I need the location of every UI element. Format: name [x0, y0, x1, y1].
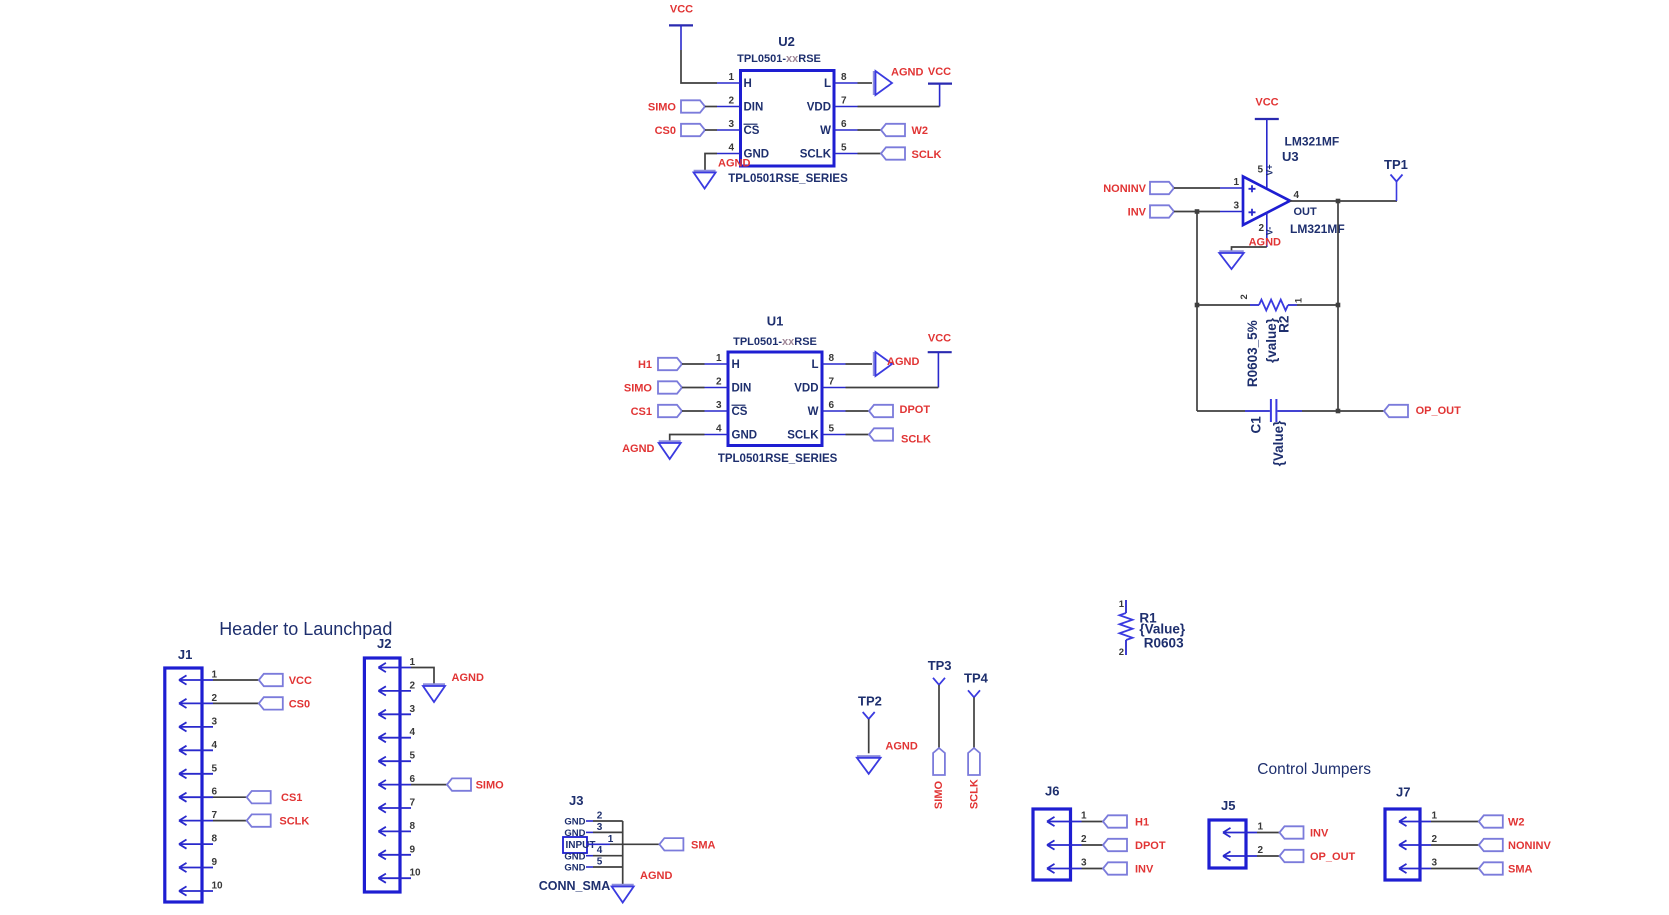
- svg-text:SIMO: SIMO: [624, 383, 653, 395]
- svg-text:1: 1: [608, 834, 614, 845]
- U1 pin 6 W: [822, 410, 846, 412]
- wire U1 pin 5 to SCLK flag: [846, 434, 870, 436]
- net flag SIMO (U1 pin 2): [658, 381, 682, 393]
- svg-text:CS: CS: [732, 406, 748, 418]
- svg-text:TPL0501-xxRSE: TPL0501-xxRSE: [733, 336, 817, 348]
- U2 pin 7 VDD: [834, 106, 858, 108]
- node feedback-R2 right junction: [1336, 303, 1341, 308]
- svg-text:L: L: [824, 78, 831, 90]
- svg-text:5: 5: [212, 763, 218, 774]
- net flag SIMO (below TP3): [933, 748, 945, 775]
- svg-text:TP2: TP2: [858, 694, 882, 709]
- wire feedback row left segment to C1: [1197, 410, 1245, 412]
- U2 pin 1 H: [717, 82, 741, 84]
- U1 pin 8 L: [822, 363, 846, 365]
- svg-text:C1: C1: [1249, 416, 1264, 434]
- svg-text:2: 2: [597, 811, 603, 822]
- svg-text:AGND: AGND: [885, 741, 917, 753]
- J3 pin 1 INPUT: [563, 837, 587, 853]
- J6 pin 2: [1047, 840, 1082, 849]
- svg-text:Header to Launchpad: Header to Launchpad: [219, 619, 392, 639]
- header J2 body: [364, 658, 400, 892]
- svg-text:CS1: CS1: [631, 406, 652, 418]
- svg-text:8: 8: [841, 72, 847, 83]
- svg-text:SCLK: SCLK: [787, 430, 819, 442]
- wire J2 pin 6 to SIMO flag: [411, 784, 447, 786]
- svg-text:6: 6: [841, 119, 847, 130]
- svg-text:8: 8: [212, 834, 218, 845]
- wire CS0 flag to pin 3: [705, 129, 717, 131]
- net flag CS0 (U2 pin 3): [681, 124, 705, 136]
- svg-text:CS: CS: [744, 125, 760, 137]
- net flag SIMO (J2 pin 6): [447, 778, 471, 790]
- wire J7 pin 1 to W2 flag: [1431, 821, 1479, 823]
- net flag SIMO (U2 pin 2): [681, 100, 705, 112]
- svg-text:INV: INV: [1128, 207, 1147, 219]
- svg-text:9: 9: [410, 844, 416, 855]
- svg-text:U1: U1: [767, 314, 784, 329]
- svg-text:CS1: CS1: [281, 792, 302, 804]
- wire J1 pin 2 to CS0 flag: [213, 702, 259, 704]
- svg-text:SMA: SMA: [1508, 864, 1533, 876]
- J1 pin 2: [179, 699, 213, 708]
- wire J3 ground bus: [622, 821, 624, 885]
- svg-text:SCLK: SCLK: [279, 816, 309, 828]
- svg-text:GND: GND: [564, 863, 585, 874]
- net flag SCLK (U2 pin 5): [881, 147, 905, 159]
- ground AGND (below TP2): [857, 755, 881, 757]
- net flag W2 (J7 pin 1): [1479, 815, 1503, 827]
- J2 pin 8: [378, 827, 411, 836]
- svg-text:GND: GND: [732, 430, 758, 442]
- net flag OP_OUT (J5 pin 2): [1280, 850, 1304, 862]
- U2 pin 5 SCLK: [834, 153, 858, 155]
- wire J5 pin 1 to INV flag: [1257, 832, 1280, 834]
- J1 pin 7: [179, 816, 213, 825]
- net flag INV (U3 pin 3): [1150, 205, 1174, 217]
- net flag INV (J5 pin 1): [1280, 826, 1304, 838]
- svg-text:VCC: VCC: [670, 4, 693, 16]
- svg-text:R0603: R0603: [1144, 636, 1184, 651]
- wire TP3 to SIMO flag: [938, 685, 940, 748]
- svg-text:6: 6: [212, 787, 218, 798]
- svg-text:NONINV: NONINV: [1103, 183, 1146, 195]
- wire R2 right to output net: [1297, 304, 1338, 306]
- svg-text:CS0: CS0: [655, 125, 676, 137]
- ground AGND (below J3): [612, 884, 634, 886]
- svg-text:4: 4: [212, 740, 218, 751]
- node feedback-R2 left junction: [1195, 303, 1200, 308]
- digital potentiometer U1 body: [728, 352, 822, 446]
- wire J7 pin 2 to NONINV flag: [1431, 844, 1479, 846]
- svg-text:1: 1: [1258, 822, 1264, 833]
- wire J6 pin 2 to DPOT flag: [1082, 844, 1104, 846]
- svg-text:W2: W2: [1508, 817, 1525, 829]
- J7 pin 1: [1399, 817, 1431, 826]
- svg-text:J5: J5: [1221, 798, 1235, 813]
- U1 pin 1 H: [705, 363, 729, 365]
- svg-text:H: H: [732, 359, 740, 371]
- svg-text:1: 1: [212, 670, 218, 681]
- svg-text:SCLK: SCLK: [969, 779, 981, 809]
- U3 pin 2 V- supply: [1266, 212, 1268, 247]
- svg-text:DIN: DIN: [744, 102, 764, 114]
- J5 pin 1: [1223, 828, 1257, 837]
- net flag W2 (U2 pin 6): [881, 124, 905, 136]
- svg-text:VDD: VDD: [807, 102, 831, 114]
- svg-text:7: 7: [410, 798, 416, 809]
- svg-text:R2: R2: [1276, 316, 1291, 333]
- svg-text:SCLK: SCLK: [912, 149, 942, 161]
- wire J7 pin 3 to SMA flag: [1431, 868, 1479, 870]
- net flag SMA (J7 pin 3): [1479, 862, 1503, 874]
- svg-text:TP1: TP1: [1384, 157, 1408, 172]
- svg-text:1: 1: [728, 72, 734, 83]
- wire J5 pin 2 to OP_OUT flag: [1257, 855, 1280, 857]
- svg-text:6: 6: [410, 774, 416, 785]
- svg-text:1: 1: [1119, 599, 1125, 610]
- U3 pin 5 V+ supply: [1266, 119, 1268, 190]
- net flag NONINV (J7 pin 2): [1479, 839, 1503, 851]
- wire C1 right to output net: [1302, 410, 1338, 412]
- wire J3 pin 4 to ground bus: [593, 855, 623, 857]
- wire U2 pin 5 to SCLK flag: [858, 153, 882, 155]
- svg-text:7: 7: [829, 377, 835, 388]
- U2 pin 2 DIN: [717, 106, 741, 108]
- wire J6 pin 1 to H1 flag: [1082, 821, 1104, 823]
- wire J3 pin 1 to SMA flag: [610, 843, 659, 845]
- svg-text:6: 6: [829, 400, 835, 411]
- svg-text:TPL0501RSE_SERIES: TPL0501RSE_SERIES: [718, 453, 838, 465]
- svg-text:U2: U2: [778, 34, 795, 49]
- header J6 body: [1033, 809, 1071, 880]
- resistor R2: [1250, 304, 1297, 306]
- svg-text:TP3: TP3: [928, 658, 952, 673]
- svg-text:TP4: TP4: [964, 671, 989, 686]
- net flag OP_OUT (op-amp output): [1384, 405, 1408, 417]
- wire feedback left to R2: [1197, 304, 1250, 306]
- svg-text:INV: INV: [1310, 828, 1329, 840]
- svg-text:4: 4: [716, 424, 722, 435]
- U1 pin 3 CS: [705, 410, 729, 412]
- J1 pin 8: [179, 840, 213, 849]
- net flag SCLK (U1 pin 5): [869, 428, 893, 440]
- header J7 body: [1385, 809, 1420, 880]
- wire U2 pin 8 to AGND arrow: [858, 82, 873, 84]
- net flag NONINV (U3 pin 1): [1150, 182, 1174, 194]
- svg-text:10: 10: [212, 881, 224, 892]
- svg-text:R0603_5%: R0603_5%: [1245, 320, 1260, 387]
- svg-text:U3: U3: [1282, 149, 1299, 164]
- svg-text:5: 5: [829, 424, 835, 435]
- svg-text:W: W: [808, 406, 819, 418]
- wire U2 pin 7 to VCC: [858, 106, 940, 108]
- ground AGND (below U2 pin 4): [694, 170, 716, 172]
- svg-text:AGND: AGND: [640, 870, 672, 882]
- wire TP1 to output net: [1396, 182, 1398, 202]
- svg-text:3: 3: [410, 704, 416, 715]
- net flag SMA (J3 pin 1): [659, 838, 683, 850]
- net flag DPOT (J6 pin 2): [1103, 839, 1127, 851]
- digital potentiometer U2 body: [741, 71, 835, 167]
- J2 pin 3: [378, 710, 411, 719]
- svg-text:L: L: [811, 359, 818, 371]
- svg-text:TPL0501RSE_SERIES: TPL0501RSE_SERIES: [728, 173, 848, 185]
- svg-text:SIMO: SIMO: [933, 781, 945, 810]
- svg-text:3: 3: [728, 119, 734, 130]
- node INV junction: [1195, 209, 1200, 214]
- svg-text:SMA: SMA: [691, 839, 716, 851]
- J1 pin 4: [179, 746, 213, 755]
- svg-text:VCC: VCC: [928, 333, 951, 345]
- J1 pin 1: [179, 675, 213, 684]
- J2 pin 7: [378, 803, 411, 812]
- svg-text:OUT: OUT: [1294, 206, 1318, 218]
- J2 pin 2: [378, 686, 411, 695]
- svg-text:AGND: AGND: [887, 356, 919, 368]
- J6 pin 1: [1047, 817, 1082, 826]
- svg-text:2: 2: [728, 96, 734, 107]
- wire U1 pin 7 to VCC: [846, 387, 939, 389]
- wire U1 pin 4 to ground: [670, 435, 705, 442]
- svg-text:W: W: [820, 125, 831, 137]
- svg-text:NONINV: NONINV: [1508, 840, 1551, 852]
- net flag DPOT (U1 pin 6): [869, 405, 893, 417]
- wire U3 pin 2 to ground: [1232, 247, 1267, 252]
- svg-text:AGND: AGND: [1249, 236, 1281, 248]
- wire J6 pin 3 to INV flag: [1082, 868, 1104, 870]
- svg-text:DPOT: DPOT: [900, 404, 931, 416]
- J1 pin 10: [179, 886, 213, 895]
- wire U2 pin 6 to W2 flag: [858, 129, 882, 131]
- svg-text:2: 2: [212, 693, 218, 704]
- svg-text:DPOT: DPOT: [1135, 840, 1166, 852]
- net flag CS0 (J1 pin 2): [259, 697, 283, 709]
- svg-text:V-: V-: [1265, 227, 1275, 236]
- U1 pin 2 DIN: [705, 387, 729, 389]
- header J1 body: [165, 668, 202, 902]
- svg-text:TPL0501-xxRSE: TPL0501-xxRSE: [737, 53, 821, 65]
- svg-text:1: 1: [716, 353, 722, 364]
- U3 pin 1 noninverting input: [1220, 187, 1243, 189]
- svg-text:4: 4: [1294, 190, 1300, 201]
- wire SIMO flag to pin 2: [682, 387, 705, 389]
- wire U1 pin 6 to DPOT flag: [846, 410, 870, 412]
- wire output down to feedback: [1337, 201, 1339, 411]
- wire J1 pin 7 to SCLK flag: [213, 820, 247, 822]
- net flag VCC (J1 pin 1): [259, 674, 283, 686]
- net flag SCLK (below TP4): [968, 748, 980, 775]
- wire SIMO flag to pin 2: [705, 106, 717, 108]
- svg-text:J6: J6: [1045, 784, 1059, 799]
- svg-text:1: 1: [1233, 177, 1239, 188]
- wire TP2 to ground: [868, 719, 870, 753]
- net flag CS1 (U1 pin 3): [658, 405, 682, 417]
- svg-text:AGND: AGND: [718, 158, 750, 170]
- svg-text:5: 5: [410, 751, 416, 762]
- svg-text:H1: H1: [638, 359, 652, 371]
- svg-text:LM321MF: LM321MF: [1290, 222, 1345, 236]
- svg-text:GND: GND: [564, 817, 585, 828]
- svg-text:GND: GND: [564, 851, 585, 862]
- J1 pin 3: [179, 722, 213, 731]
- svg-text:2: 2: [1432, 834, 1438, 845]
- net flag SCLK (J1 pin 7): [247, 814, 271, 826]
- J2 pin 6: [378, 780, 411, 789]
- wire INV node down to feedback: [1196, 212, 1198, 412]
- J2 pin 1: [378, 663, 411, 672]
- wire J2 pin 1 to ground: [411, 668, 434, 685]
- svg-text:J7: J7: [1396, 785, 1410, 800]
- wire CS1 flag to pin 3: [682, 410, 705, 412]
- svg-text:2: 2: [410, 680, 416, 691]
- svg-text:H: H: [744, 78, 752, 90]
- wire J3 pin 3 to ground bus: [593, 831, 623, 833]
- svg-text:Control Jumpers: Control Jumpers: [1257, 761, 1371, 778]
- svg-text:1: 1: [1081, 811, 1087, 822]
- svg-text:7: 7: [841, 96, 847, 107]
- J1 pin 5: [179, 769, 213, 778]
- svg-text:CONN_SMA: CONN_SMA: [539, 879, 611, 893]
- svg-text:3: 3: [597, 822, 603, 833]
- svg-text:OP_OUT: OP_OUT: [1310, 851, 1356, 863]
- U2 pin 6 W: [834, 129, 858, 131]
- svg-text:2: 2: [1239, 294, 1250, 299]
- svg-text:2: 2: [1258, 845, 1264, 856]
- wire U1 pin 8 to AGND arrow: [846, 363, 873, 365]
- svg-text:10: 10: [410, 868, 422, 879]
- wire VCC to U2 pin 1: [681, 50, 717, 83]
- ground AGND (below U1 pin 4): [659, 440, 681, 442]
- wire output net to OP_OUT flag: [1338, 410, 1384, 412]
- wire INV flag to pin 3: [1174, 211, 1220, 213]
- svg-text:3: 3: [1432, 858, 1438, 869]
- wire J3 pin 2 to ground bus: [593, 820, 623, 822]
- svg-text:2: 2: [1081, 834, 1087, 845]
- svg-text:3: 3: [716, 400, 722, 411]
- net flag H1 (J6 pin 1): [1103, 815, 1127, 827]
- svg-text:AGND: AGND: [891, 67, 923, 79]
- svg-text:{Value}: {Value}: [1139, 621, 1186, 636]
- svg-text:INPUT: INPUT: [566, 840, 596, 851]
- svg-text:J3: J3: [569, 793, 583, 808]
- wire J1 pin 6 to CS1 flag: [213, 796, 247, 798]
- svg-text:5: 5: [597, 857, 603, 868]
- wire J1 pin 1 to VCC flag: [213, 679, 259, 681]
- net flag H1 (U1 pin 1): [658, 358, 682, 370]
- U2 pin 8 L: [834, 82, 858, 84]
- svg-text:AGND: AGND: [452, 672, 484, 684]
- svg-text:CS0: CS0: [289, 698, 310, 710]
- svg-text:3: 3: [1081, 858, 1087, 869]
- svg-text:8: 8: [829, 353, 835, 364]
- svg-text:{Value}: {Value}: [1271, 420, 1286, 467]
- net flag INV (J6 pin 3): [1103, 862, 1127, 874]
- ground AGND right-pointing (U2 pin 8): [873, 71, 875, 95]
- J6 pin 3: [1047, 864, 1082, 873]
- svg-text:DIN: DIN: [732, 383, 752, 395]
- wire TP4 to SCLK flag: [973, 698, 975, 749]
- svg-text:1: 1: [410, 657, 416, 668]
- J7 pin 3: [1399, 864, 1431, 873]
- capacitor C1: [1245, 410, 1302, 412]
- svg-text:INV: INV: [1135, 864, 1154, 876]
- svg-text:3: 3: [212, 716, 218, 727]
- svg-text:5: 5: [841, 143, 847, 154]
- svg-text:3: 3: [1233, 201, 1239, 212]
- J2 pin 4: [378, 733, 411, 742]
- U2 pin 3 CS: [717, 129, 741, 131]
- wire U2 pin 4 to ground: [705, 154, 717, 172]
- op-amp U3 triangle: [1243, 177, 1290, 226]
- svg-text:AGND: AGND: [622, 443, 654, 455]
- svg-text:SCLK: SCLK: [901, 434, 931, 446]
- U1 pin 7 VDD: [822, 387, 846, 389]
- svg-text:9: 9: [212, 857, 218, 868]
- svg-text:SIMO: SIMO: [648, 102, 677, 114]
- J1 pin 9: [179, 863, 213, 872]
- U2 pin 4 GND: [717, 153, 741, 155]
- svg-text:OP_OUT: OP_OUT: [1416, 405, 1462, 417]
- wire H1 flag to pin 1: [682, 363, 705, 365]
- J5 pin 2: [1223, 851, 1257, 860]
- J7 pin 2: [1399, 840, 1431, 849]
- ground AGND (below U3): [1219, 250, 1244, 252]
- net flag CS1 (J1 pin 6): [247, 791, 271, 803]
- svg-text:SIMO: SIMO: [476, 780, 505, 792]
- svg-text:J2: J2: [377, 636, 391, 651]
- node output junction: [1336, 199, 1341, 204]
- svg-text:4: 4: [597, 845, 603, 856]
- svg-text:H1: H1: [1135, 817, 1149, 829]
- svg-text:2: 2: [1119, 647, 1124, 658]
- node C1-output junction: [1336, 409, 1341, 414]
- svg-text:J1: J1: [178, 647, 192, 662]
- svg-text:VDD: VDD: [794, 383, 818, 395]
- svg-text:VCC: VCC: [928, 66, 951, 78]
- header J5 body: [1209, 820, 1246, 868]
- ground AGND (J2 pin 1): [423, 683, 445, 685]
- svg-text:4: 4: [410, 727, 416, 738]
- ground AGND right-pointing (U1 pin 8): [873, 352, 875, 376]
- U1 pin 5 SCLK: [822, 434, 846, 436]
- svg-text:W2: W2: [912, 125, 929, 137]
- J2 pin 9: [378, 850, 411, 859]
- J2 pin 10: [378, 874, 411, 883]
- svg-text:LM321MF: LM321MF: [1285, 135, 1340, 149]
- U1 pin 4 GND: [705, 434, 729, 436]
- svg-text:SCLK: SCLK: [800, 149, 832, 161]
- wire NONINV flag to pin 1: [1174, 187, 1220, 189]
- svg-text:7: 7: [212, 810, 218, 821]
- svg-text:4: 4: [728, 143, 734, 154]
- svg-text:VCC: VCC: [1255, 97, 1278, 109]
- svg-text:5: 5: [1257, 165, 1263, 176]
- svg-text:1: 1: [1432, 811, 1438, 822]
- svg-text:8: 8: [410, 821, 416, 832]
- svg-text:1: 1: [1293, 297, 1304, 303]
- svg-text:2: 2: [716, 377, 722, 388]
- J1 pin 6: [179, 793, 213, 802]
- wire J3 pin 5 to ground bus: [593, 866, 623, 868]
- svg-text:V+: V+: [1265, 164, 1275, 175]
- svg-text:VCC: VCC: [289, 675, 312, 687]
- wire U3 output to TP1: [1290, 200, 1397, 202]
- U3 pin 3 inverting input: [1220, 211, 1243, 213]
- J2 pin 5: [378, 757, 411, 766]
